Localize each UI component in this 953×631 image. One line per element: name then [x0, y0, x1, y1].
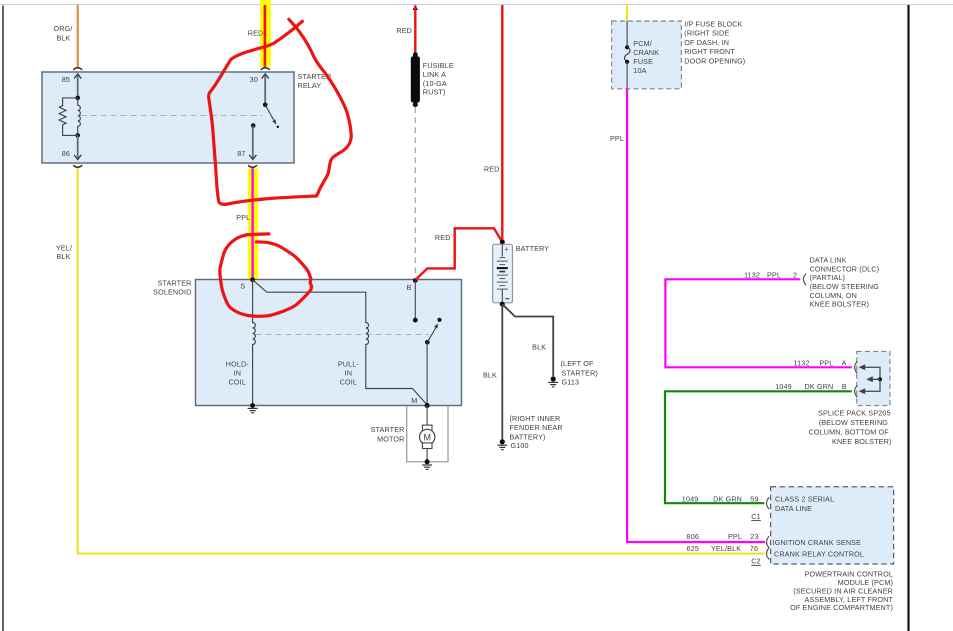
powertrain control module PCM (dashed box): [767, 487, 894, 564]
svg-text:COLUMN, ON: COLUMN, ON: [810, 291, 857, 300]
svg-text:DOOR OPENING): DOOR OPENING): [684, 56, 745, 65]
solenoid pull-in coil branch: [253, 280, 427, 405]
wire YEL feed into I/P fuse block: [626, 5, 628, 21]
svg-text:IGNITION CRANK SENSE: IGNITION CRANK SENSE: [773, 538, 862, 547]
solenoid hold-in coil branch: [226, 280, 256, 406]
svg-text:(RIGHT INNER: (RIGHT INNER: [510, 414, 561, 423]
svg-text:IN: IN: [345, 368, 353, 377]
solenoid terminal B: [407, 278, 418, 323]
svg-text:SOLENOID: SOLENOID: [153, 287, 191, 296]
splice pack label: [809, 408, 892, 446]
svg-text:(BELOW STEERING: (BELOW STEERING: [810, 282, 880, 291]
svg-text:(10-GA: (10-GA: [423, 79, 447, 88]
svg-text:S: S: [240, 281, 245, 290]
svg-text:MOTOR: MOTOR: [377, 434, 404, 443]
svg-text:(RIGHT SIDE: (RIGHT SIDE: [684, 29, 729, 38]
svg-text:STARTER: STARTER: [371, 425, 405, 434]
relay K1: starter relay box: [42, 72, 331, 163]
solenoid ground at case: [248, 403, 258, 413]
svg-text:59: 59: [750, 495, 758, 504]
svg-text:23: 23: [750, 532, 758, 541]
connector half-circle at DLC pin 2: [803, 273, 806, 285]
svg-text:OF DASH, IN: OF DASH, IN: [684, 38, 729, 47]
splice pack SP205 (dashed box): [855, 351, 890, 405]
svg-text:B: B: [842, 382, 847, 391]
svg-text:BLK: BLK: [532, 343, 546, 352]
PCM location label: [790, 570, 893, 613]
svg-text:BATTERY: BATTERY: [516, 244, 550, 253]
svg-text:LINK A: LINK A: [423, 70, 446, 79]
svg-text:BLK: BLK: [56, 252, 70, 261]
relay pin 85: [62, 68, 82, 98]
wire RED battery positive feed (vertical): [484, 5, 502, 242]
wire ORG/BLK feed to relay pin 85: [54, 5, 78, 68]
svg-text:HOLD-: HOLD-: [226, 359, 250, 368]
svg-text:RELAY: RELAY: [298, 81, 322, 90]
svg-text:PPL: PPL: [236, 213, 250, 222]
svg-text:+: +: [505, 247, 509, 254]
svg-text:CLASS 2 SERIAL: CLASS 2 SERIAL: [775, 495, 834, 504]
relay dashed actuation link: [81, 115, 262, 117]
svg-text:DATA LINE: DATA LINE: [775, 504, 812, 513]
wire labels 625 YEL/BLK 76: [687, 544, 759, 553]
svg-text:G100: G100: [511, 441, 529, 450]
svg-text:SPLICE PACK SP205: SPLICE PACK SP205: [818, 408, 891, 417]
svg-text:PPL: PPL: [819, 359, 833, 368]
relay switch contact arm: [263, 103, 279, 129]
svg-text:10A: 10A: [633, 66, 646, 75]
splice pack internal bus: [859, 364, 882, 394]
svg-text:CONNECTOR (DLC): CONNECTOR (DLC): [810, 264, 880, 273]
svg-text:I/P FUSE BLOCK: I/P FUSE BLOCK: [684, 20, 742, 29]
wire PPL circuit 1132 DLC pin 2 to splice pack A: [665, 271, 852, 368]
svg-text:DK GRN: DK GRN: [805, 382, 834, 391]
svg-text:FUSIBLE: FUSIBLE: [423, 61, 454, 70]
data link connector label: [810, 256, 880, 309]
wire RED battery to solenoid B: [416, 228, 503, 279]
svg-text:(BELOW STEERING: (BELOW STEERING: [819, 418, 889, 427]
svg-text:PCM/: PCM/: [633, 39, 652, 48]
svg-text:RUST): RUST): [423, 88, 446, 97]
wire labels 806 PPL 23: [687, 532, 759, 541]
svg-text:DATA LINK: DATA LINK: [810, 256, 847, 265]
fuse: PCM/CRANK FUSE 10A: [625, 21, 660, 89]
solenoid dashed actuation link: [256, 334, 430, 336]
svg-text:BLK: BLK: [483, 370, 497, 379]
solenoid switch contact arm: [425, 318, 442, 406]
svg-text:1132: 1132: [744, 271, 760, 280]
wire PPL fuse block to PCM pin 23 (ignition crank sense): [610, 89, 765, 542]
svg-text:M: M: [423, 432, 431, 442]
svg-text:G113: G113: [562, 378, 580, 387]
annotation: red scribble loop around solenoid S terminal: [220, 234, 312, 316]
svg-text:1049: 1049: [775, 382, 792, 391]
battery: [493, 240, 550, 307]
svg-text:PPL: PPL: [767, 271, 781, 280]
svg-text:B: B: [407, 283, 412, 292]
svg-text:YEL/BLK: YEL/BLK: [711, 544, 741, 553]
relay coil: [75, 96, 80, 138]
wire PPL relay pin 87 to solenoid S (yellow highlighter): [236, 168, 258, 280]
svg-text:BLK: BLK: [56, 33, 70, 42]
ground G113: [548, 359, 598, 387]
svg-text:PPL: PPL: [610, 134, 624, 143]
wire BLK battery to ground G100: [483, 304, 502, 439]
fusible link A: [396, 5, 454, 107]
svg-text:M: M: [411, 396, 417, 405]
ground at starter motor: [422, 459, 432, 469]
svg-text:COIL: COIL: [340, 377, 357, 386]
svg-text:(LEFT OF: (LEFT OF: [561, 359, 594, 368]
wire RED ignition feed to relay pin 30 (yellow highlighter): [248, 0, 271, 67]
svg-text:30: 30: [250, 75, 258, 84]
wire YEL/BLK relay pin 86 to PCM pin 76 (crank relay control): [56, 167, 765, 553]
svg-text:RED: RED: [484, 165, 500, 174]
dashed wire fusible link to solenoid B: [414, 108, 416, 280]
svg-text:CRANK RELAY CONTROL: CRANK RELAY CONTROL: [774, 550, 864, 559]
svg-text:COLUMN, BOTTOM OF: COLUMN, BOTTOM OF: [809, 428, 890, 437]
PCM connector labels C1 / C2: [751, 512, 761, 566]
wire DK GRN circuit 1049 splice pack B to PCM pin 59: [665, 382, 852, 503]
svg-text:STARTER: STARTER: [158, 278, 192, 287]
wire BLK battery to ground G113: [502, 304, 553, 376]
svg-text:FUSE: FUSE: [633, 57, 653, 66]
solenoid terminal M: [411, 396, 429, 408]
svg-text:PPL: PPL: [728, 532, 742, 541]
svg-text:1049: 1049: [682, 495, 699, 504]
svg-text:625: 625: [687, 544, 699, 553]
relay pin 87: [237, 123, 257, 167]
starter motor M1: [420, 406, 435, 462]
svg-text:2: 2: [793, 271, 797, 280]
svg-text:STARTER): STARTER): [562, 368, 598, 377]
svg-text:86: 86: [62, 149, 70, 158]
svg-text:COIL: COIL: [229, 377, 246, 386]
svg-text:FENDER NEAR: FENDER NEAR: [510, 423, 563, 432]
svg-text:KNEE BOLSTER): KNEE BOLSTER): [832, 437, 891, 446]
svg-text:76: 76: [750, 544, 758, 553]
svg-text:(PARTIAL): (PARTIAL): [810, 273, 845, 282]
annotation: red scribble X and loop around relay output wire: [209, 19, 352, 204]
svg-text:RED: RED: [396, 26, 412, 35]
solenoid terminal S: [240, 277, 255, 290]
svg-text:1132: 1132: [794, 359, 810, 368]
relay pin 86: [62, 135, 82, 167]
svg-text:85: 85: [62, 75, 70, 84]
svg-text:C2: C2: [751, 557, 761, 566]
svg-text:C1: C1: [751, 512, 761, 521]
svg-text:RED: RED: [248, 29, 264, 38]
svg-text:806: 806: [687, 532, 699, 541]
svg-text:CRANK: CRANK: [633, 48, 659, 57]
I/P fuse block (dashed): [612, 20, 746, 89]
starter motor outline box: [371, 406, 448, 462]
ground G100: [497, 414, 562, 450]
svg-text:A: A: [842, 359, 847, 368]
svg-text:DK GRN: DK GRN: [713, 495, 742, 504]
svg-text:87: 87: [237, 149, 245, 158]
starter solenoid box: [153, 278, 461, 405]
svg-text:ORG/: ORG/: [54, 24, 73, 33]
relay coil suppression resistor: [59, 98, 77, 135]
svg-text:PULL-: PULL-: [338, 359, 360, 368]
svg-text:RED: RED: [435, 233, 451, 242]
svg-text:KNEE BOLSTER): KNEE BOLSTER): [810, 300, 869, 309]
relay pin 30: [250, 68, 270, 105]
svg-text:IN: IN: [234, 368, 242, 377]
svg-text:OF ENGINE COMPARTMENT): OF ENGINE COMPARTMENT): [790, 603, 893, 612]
svg-text:RIGHT FRONT: RIGHT FRONT: [684, 47, 735, 56]
